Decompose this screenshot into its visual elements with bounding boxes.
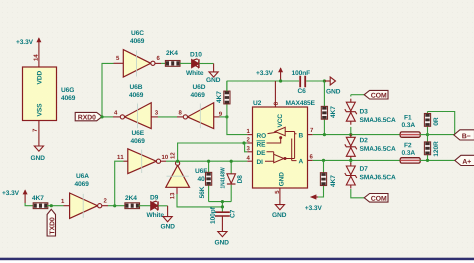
junction U6A output	[113, 204, 116, 207]
wire C6 to gnd junction	[306, 80, 324, 82]
wire U6A out to 2K4	[102, 205, 126, 207]
wire RE into chip pin2	[244, 142, 253, 144]
wire 4K7 pulldown from C6 gnd node	[323, 81, 325, 135]
junction D8 top	[230, 160, 233, 163]
ground right-pointing at C6	[324, 77, 340, 94]
fuse F1	[400, 115, 420, 137]
wire U6D in to junction	[214, 116, 227, 118]
pin 7 stub U6G	[33, 121, 39, 147]
wire U6C out to R 2K4	[155, 62, 165, 64]
diode D8 1N4148W	[220, 161, 242, 201]
junction RXD0	[100, 115, 103, 118]
resistor 0R	[424, 112, 438, 135]
junction +3.3V rail	[279, 79, 282, 82]
junction B/0R/120R	[426, 133, 429, 136]
wire B line	[313, 134, 401, 136]
wire RXD0 to U6B output	[102, 116, 113, 118]
wire +3.3V rail	[227, 81, 299, 91]
wire +3.3V to R4K7	[25, 203, 33, 206]
wire U6F pin13	[177, 187, 222, 207]
wire DE bracket to chip pin3	[245, 143, 253, 152]
sheet bottom border line	[0, 258, 474, 261]
wire U6B in to U6D out	[151, 116, 183, 118]
inverter U6E	[117, 130, 168, 173]
wire 2K4 to D10	[180, 62, 192, 64]
wire 0R top to B-	[428, 112, 455, 135]
net label TXD0	[47, 209, 55, 236]
junction D2/A	[349, 159, 352, 162]
capacitor C6	[292, 70, 310, 93]
wire 4K7 to U6A input	[47, 205, 70, 207]
junction pin13 net	[221, 200, 224, 203]
inverter U6A	[61, 173, 106, 218]
wire F2 to A+	[420, 159, 456, 161]
chip pin8 stub	[274, 81, 278, 107]
inverter U6B	[113, 84, 158, 128]
junction C6/GND	[323, 79, 326, 82]
wire RO drop to chip pin1	[227, 117, 253, 135]
pin 14 stub U6G	[34, 51, 39, 67]
chip left pin numbers	[247, 129, 250, 160]
wire C7 to ground	[221, 216, 223, 232]
wire U6F pin12 up to RE/DE	[178, 143, 244, 160]
junction U6F output on DI line	[176, 160, 179, 163]
global label COM (bottom)	[364, 194, 388, 203]
resistor 2K4 (top)	[165, 50, 180, 66]
resistor 4K7 (A pullup)	[317, 160, 335, 197]
IC U2 MAX485E body	[253, 100, 315, 188]
junction A/4K7	[322, 159, 325, 162]
chip internal driver buffer	[265, 139, 297, 163]
resistor 4K7 (B pulldown)	[321, 106, 335, 119]
wire D10 to ground	[199, 64, 213, 72]
power +3.3V bottom-left	[2, 189, 27, 203]
wire 2K4 to D9	[139, 205, 151, 207]
output flag B-	[454, 130, 474, 140]
junction pin9 node	[225, 115, 228, 118]
ground at D9	[161, 217, 175, 229]
resistor 4K7 (TXD0 pullup)	[32, 195, 48, 208]
IC U6G power unit	[23, 67, 76, 121]
wire node RXD0 to U6C input	[102, 63, 114, 117]
junction 56K top	[207, 160, 210, 163]
net label RXD0	[75, 112, 102, 120]
wire D9 to ground	[158, 206, 167, 217]
TVS D3	[345, 95, 396, 135]
bottom window strip	[0, 258, 474, 263]
wire F1 to junction	[420, 134, 428, 136]
junction pin13 wire	[221, 205, 224, 208]
power +3.3V top-mid	[256, 67, 283, 81]
ground below U6G	[31, 146, 45, 160]
junction RE/DE tie	[242, 141, 245, 144]
LED D9	[147, 195, 164, 217]
resistor 2K4 (bottom)	[125, 195, 140, 208]
ground at C7	[215, 232, 229, 245]
global label COM (top)	[364, 90, 388, 99]
power +3.3V top-left	[16, 37, 41, 51]
inverter U6C	[114, 30, 160, 77]
chip pin6 stub	[308, 154, 313, 160]
junction D3/B	[349, 133, 352, 136]
capacitor C7	[210, 207, 235, 223]
LED D10	[186, 52, 203, 75]
junction A/120R	[426, 159, 429, 162]
output flag A+	[455, 155, 474, 165]
wire branch up to U6E input	[115, 161, 128, 206]
resistor 120R	[424, 135, 438, 161]
wire DI line U6E out to chip pin4	[161, 160, 253, 162]
TVS D7	[345, 160, 396, 197]
resistor 56K	[199, 161, 211, 201]
wire D3 to COM	[351, 94, 364, 96]
junction TXD0	[50, 204, 53, 207]
wire A line	[313, 159, 401, 161]
fuse F2	[400, 143, 420, 163]
ground at D10	[206, 72, 220, 82]
chip pin7 stub	[308, 128, 314, 135]
inverter U6D	[179, 84, 222, 128]
TVS D2	[345, 134, 396, 161]
inverter U6F (vertical)	[166, 153, 207, 199]
wire 56K/D8 bottoms	[209, 202, 232, 212]
junction B/4K7	[323, 133, 326, 136]
chip internal receiver buffer	[267, 127, 297, 158]
power +3.3V left-pointing at A pullup	[305, 194, 322, 210]
resistor 4K7 pull-up U6D	[216, 81, 230, 117]
chip pin5 stub to ground	[272, 188, 286, 217]
